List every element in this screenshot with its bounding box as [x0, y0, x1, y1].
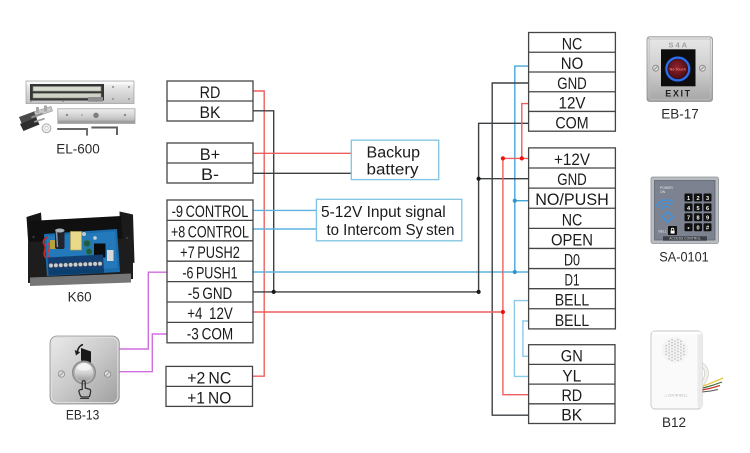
svg-text:BELL: BELL [659, 230, 667, 234]
svg-text:ACCESS CONTROL: ACCESS CONTROL [669, 237, 701, 241]
terminal block K60 power controller [167, 200, 253, 343]
svg-text:ON: ON [660, 190, 666, 194]
wire red lock RD to relay +2 NC [253, 91, 265, 376]
svg-text:-3 COM: -3 COM [187, 325, 233, 344]
svg-text:BELL: BELL [555, 291, 589, 310]
svg-text:+12V: +12V [554, 150, 591, 169]
svg-text:+4 12V: +4 12V [187, 304, 233, 323]
svg-text:+1 NO: +1 NO [187, 388, 231, 407]
wire cyan -9 CONTROL to input signal box [253, 209, 316, 211]
svg-text:NC: NC [562, 210, 583, 229]
svg-text:GND: GND [557, 74, 587, 93]
junction black GND net left [272, 290, 276, 294]
note box 5-12V input signal [316, 199, 461, 241]
wire black lock BK to GND net [253, 111, 274, 292]
svg-text:BK: BK [561, 406, 583, 425]
svg-text:EL-600: EL-600 [56, 142, 100, 157]
junction black keypad GND branch [477, 177, 481, 181]
product image K60 power supply controller [27, 212, 135, 305]
terminal block no-touch exit button [529, 33, 616, 132]
svg-text:D0: D0 [564, 251, 580, 270]
junction red +4 12V line [501, 310, 505, 314]
svg-text:8: 8 [696, 216, 699, 222]
svg-text:NO: NO [561, 54, 584, 73]
svg-text:battery: battery [367, 162, 419, 179]
svg-text:5-12V Input signal: 5-12V Input signal [321, 204, 446, 221]
product image EB-13 exit push button [50, 336, 119, 423]
junction red 12V branch [520, 156, 524, 160]
svg-text:EXIT: EXIT [665, 89, 691, 99]
note box backup battery [351, 140, 438, 179]
svg-text:+2 NC: +2 NC [187, 368, 231, 387]
svg-text:RD: RD [200, 83, 221, 102]
wire red +4 12V net horizontal [253, 311, 503, 313]
svg-text:RD: RD [561, 386, 582, 405]
svg-text:to Intercom Sy sten: to Intercom Sy sten [327, 222, 455, 239]
svg-text:-6 PUSH1: -6 PUSH1 [182, 263, 237, 282]
svg-text:No Touch: No Touch [670, 67, 686, 71]
svg-text:SA-0101: SA-0101 [659, 250, 709, 265]
svg-text:+7 PUSH2: +7 PUSH2 [180, 243, 240, 262]
wire black B- to backup battery [253, 172, 351, 174]
svg-text:B+: B+ [200, 145, 221, 164]
wire black exit button COM to GND net [479, 123, 529, 292]
svg-text:NO/PUSH: NO/PUSH [535, 190, 609, 209]
wire black branch to keypad GND [479, 178, 529, 180]
wire light blue keypad BELL to bell YL [514, 301, 528, 377]
junction cyan D1 [513, 270, 517, 274]
svg-text:S4A: S4A [669, 41, 690, 50]
svg-text:9: 9 [706, 216, 709, 222]
svg-text:YL: YL [562, 366, 581, 385]
svg-text:EB-17: EB-17 [661, 106, 699, 121]
svg-text:GN: GN [561, 347, 583, 366]
wire cyan -6 PUSH1 to keypad D1 [253, 271, 529, 273]
product image EB-17 no-touch exit button [647, 37, 713, 122]
wire magenta EB-13 to -3 COM [116, 334, 167, 372]
product image SA-0101 access control keypad [651, 177, 719, 265]
wire light blue keypad BELL to bell GN [523, 321, 529, 356]
svg-text:6: 6 [706, 206, 709, 212]
wire red up to exit button 12V [522, 104, 529, 159]
svg-text:D1: D1 [565, 271, 580, 290]
svg-text:B-: B- [201, 165, 219, 184]
terminal block door bell GN/YL/RD/BK [529, 345, 615, 424]
svg-text:EB-13: EB-13 [66, 408, 100, 423]
junction red +12V corner [501, 156, 505, 160]
wire red into keypad +12V [503, 157, 529, 159]
wire black -5 GND net horizontal [253, 291, 479, 293]
junction black GND net right [477, 290, 481, 294]
terminal block battery B+/B- [167, 143, 253, 183]
wire cyan branch into NO/PUSH [515, 200, 529, 202]
svg-text:2: 2 [696, 196, 699, 202]
svg-text:B12: B12 [662, 415, 686, 430]
wire red B+ to backup battery [253, 152, 351, 154]
wire cyan vertical to exit button NO [515, 66, 529, 272]
product image B12 door bell [651, 331, 723, 430]
svg-text:BK: BK [200, 103, 222, 122]
svg-text:△ DOOR BELL: △ DOOR BELL [665, 394, 688, 398]
wire cyan +8 CONTROL to input signal box [253, 228, 316, 230]
terminal block keypad SA-0101 [529, 148, 616, 329]
svg-text:-5 GND: -5 GND [188, 284, 233, 303]
wire black exit button GND to bell BK [492, 83, 528, 415]
svg-text:3: 3 [706, 196, 709, 202]
svg-text:Backup: Backup [367, 145, 421, 162]
svg-text:BELL: BELL [555, 311, 589, 330]
product image EL-600 magnetic lock kit [19, 81, 135, 157]
svg-text:1: 1 [687, 196, 690, 202]
svg-text:5: 5 [696, 206, 699, 212]
wire red vertical keypad +12V to bell RD [503, 158, 529, 394]
svg-text:-9 CONTROL: -9 CONTROL [172, 202, 249, 221]
wire magenta EB-13 to -6 PUSH1 [119, 272, 167, 349]
svg-text:K60: K60 [68, 290, 92, 305]
svg-text:7: 7 [687, 216, 690, 222]
svg-text:12V: 12V [559, 94, 587, 113]
svg-text:GND: GND [557, 170, 587, 189]
svg-text:0: 0 [696, 226, 699, 232]
svg-text:COM: COM [555, 113, 588, 132]
svg-text:OPEN: OPEN [551, 230, 593, 249]
svg-text:+8 CONTROL: +8 CONTROL [171, 223, 249, 242]
junction cyan NO/PUSH [513, 199, 517, 203]
terminal block K60 relay +2NC/+1NO [166, 366, 253, 406]
svg-text:NC: NC [562, 34, 583, 53]
terminal block lock wires RD/BK [167, 81, 253, 121]
